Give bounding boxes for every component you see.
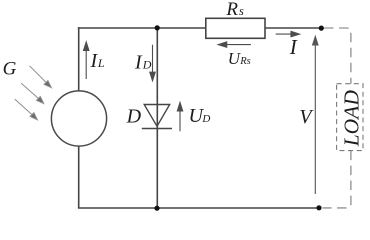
voltage arrow V <box>313 37 318 195</box>
svg-text:D: D <box>142 58 152 72</box>
load box <box>337 84 363 151</box>
wire dashed load to bottom <box>323 151 351 208</box>
svg-text:R: R <box>225 0 238 20</box>
wire top-right horizontal <box>265 27 321 29</box>
wire dashed top to load <box>324 28 351 84</box>
diode D <box>142 105 172 129</box>
current arrow I <box>276 31 300 36</box>
resistor Rs <box>206 18 265 38</box>
node bottom right junction <box>316 205 321 210</box>
node bottom diode junction <box>154 206 159 211</box>
svg-text:L: L <box>97 56 105 70</box>
svg-text:G: G <box>3 59 17 80</box>
label IL <box>90 50 105 72</box>
svg-text:I: I <box>134 52 143 74</box>
node top diode junction <box>155 25 160 30</box>
node top right junction <box>319 26 324 31</box>
svg-text:I: I <box>289 35 298 59</box>
current source G1 <box>51 91 106 146</box>
label Rs <box>225 0 244 20</box>
wire bottom horizontal <box>78 207 319 209</box>
wire left vertical upper <box>78 27 80 91</box>
svg-text:LOAD: LOAD <box>339 90 363 148</box>
svg-text:D: D <box>126 106 142 128</box>
svg-text:s: s <box>239 4 244 18</box>
current arrow ID <box>150 45 155 81</box>
label URs <box>228 49 251 68</box>
irradiance arrow 2 <box>21 83 44 103</box>
label ID <box>134 52 152 74</box>
irradiance arrow 3 <box>15 99 38 120</box>
irradiance arrow 1 <box>30 66 52 88</box>
svg-text:Rs: Rs <box>239 56 251 67</box>
wire diode branch vertical <box>156 28 158 208</box>
svg-text:D: D <box>201 113 210 125</box>
label UD <box>189 105 211 127</box>
wire top-left horizontal <box>78 27 206 29</box>
wire left vertical lower <box>78 146 80 208</box>
voltage arrow URs <box>218 42 251 47</box>
current arrow IL <box>84 42 89 79</box>
voltage arrow UD <box>177 103 182 132</box>
